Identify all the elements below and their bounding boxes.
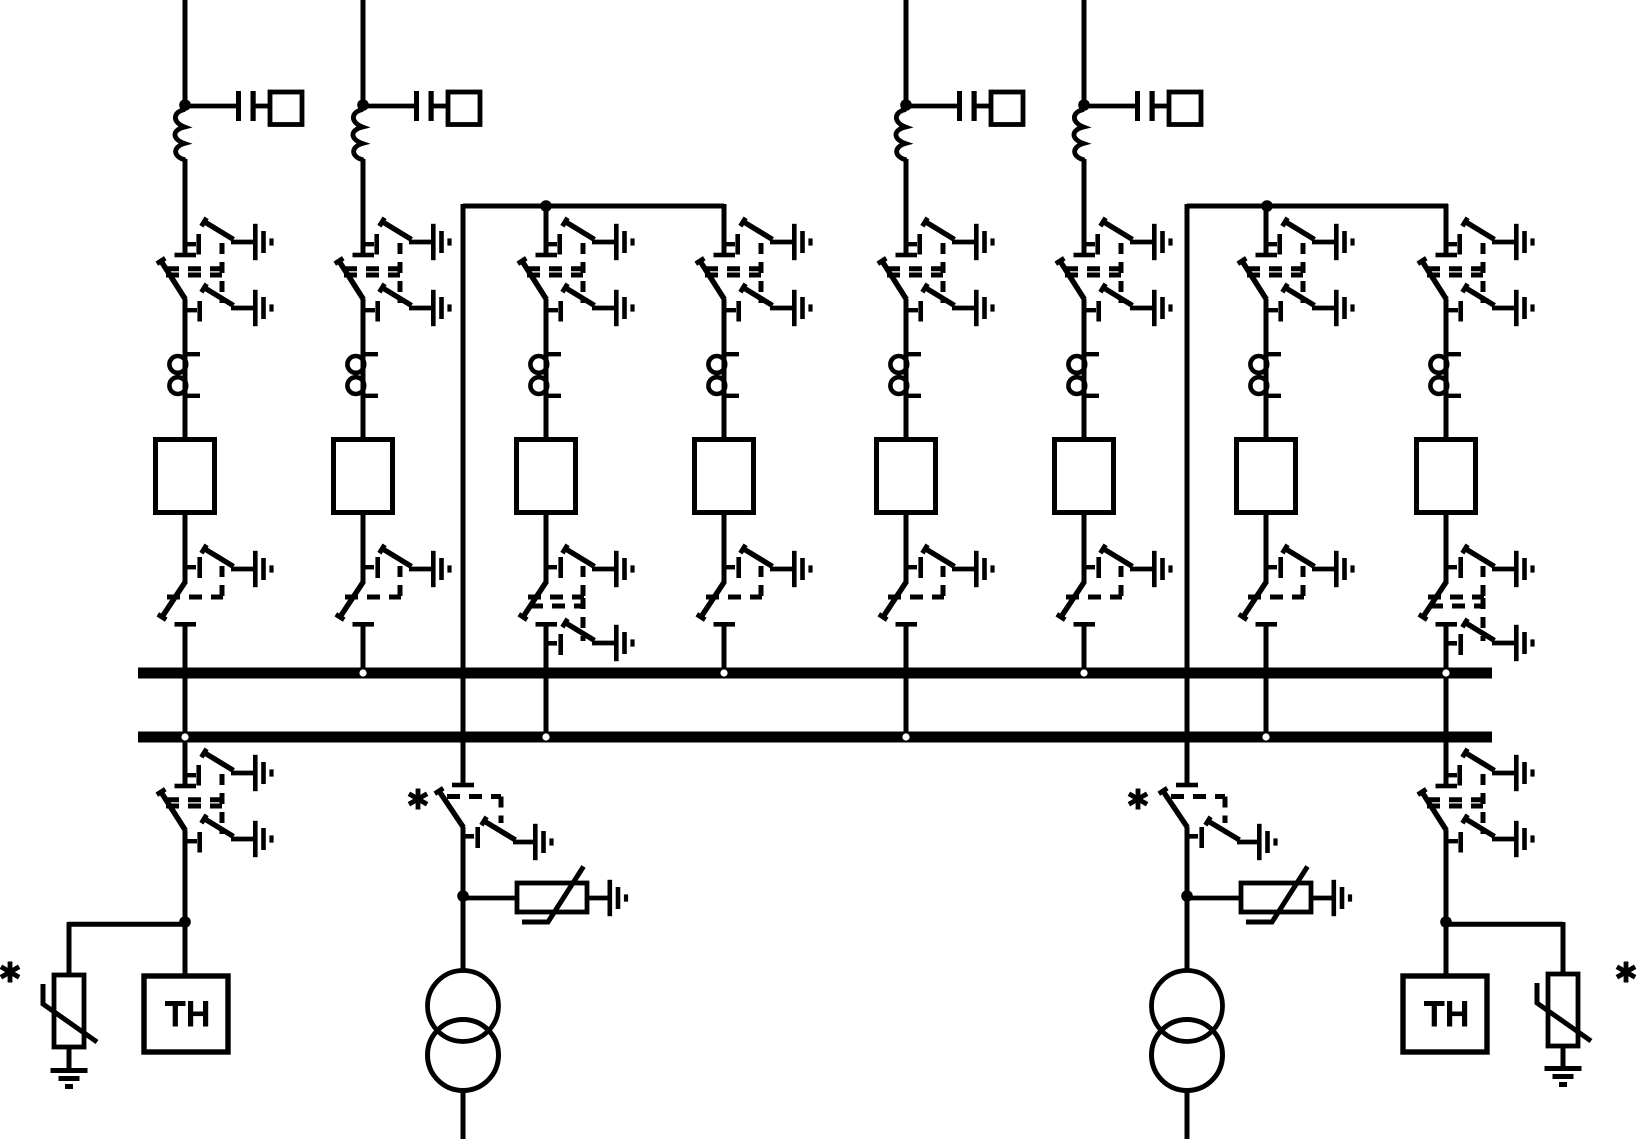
wire bay3 disconnector to breaker [544, 299, 549, 442]
disconnector QS2 with two earthing switches, bay2 [335, 218, 452, 326]
node right VT bay junction [1440, 916, 1452, 928]
asterisk footnote mark, left arrester [1, 962, 19, 983]
wire left feeder drop [461, 204, 466, 784]
node right feeder junction [1181, 890, 1193, 902]
line trap / wave trap with coupling capacitor and PLC box, bay2 [353, 91, 480, 160]
wire right feeder disconnector to transformer [1185, 827, 1190, 972]
wire bay5 disconnector to breaker [904, 299, 909, 442]
node bay1 busbar connection [181, 733, 188, 740]
line trap / wave trap with coupling capacitor and PLC box, bay5 [896, 91, 1023, 160]
wire bay8 disconnector to breaker [1444, 299, 1449, 442]
node bay5 busbar connection [902, 733, 909, 740]
line trap / wave trap with coupling capacitor and PLC box, bay6 [1074, 91, 1201, 160]
disconnector QS6 with two earthing switches, bay6 [1056, 218, 1173, 326]
circuit breaker Q4, bay4 [695, 440, 754, 513]
wire left VT bay from busbar II [183, 741, 188, 784]
disconnector QS4 with two earthing switches, bay4 [696, 218, 813, 326]
node right jumper junction [1261, 200, 1273, 212]
wire bay7 to busbar II [1264, 624, 1269, 741]
node bay6 busbar connection [1080, 669, 1087, 676]
wire bay3 drop from jumper [544, 206, 549, 254]
wire bay4 disconnector to breaker [722, 299, 727, 442]
power transformer T, left feeder [428, 971, 499, 1091]
wire bay1 breaker to bus disconnector [183, 511, 188, 583]
node left VT bay junction [179, 916, 191, 928]
wire bay8 breaker to bus disconnector [1444, 511, 1449, 583]
wire left transformer outgoing [461, 1089, 466, 1139]
power transformer T, right feeder [1152, 971, 1223, 1091]
wire bay8 to busbar I and down to voltage-transformer bay [1444, 624, 1449, 784]
wire bay5 incoming overhead line [904, 0, 909, 103]
line trap / wave trap with coupling capacitor and PLC box, bay1 [175, 91, 302, 160]
wire bay2 incoming overhead line [361, 0, 366, 103]
wire bay4 drop from jumper [722, 204, 727, 254]
node bay8 busbar connection [1442, 669, 1449, 676]
circuit breaker Q8, bay8 [1417, 440, 1476, 513]
bus disconnector with earthing switch, bay6 [1057, 545, 1173, 627]
surge arrester branch with ground, right feeder [1187, 867, 1352, 923]
asterisk footnote mark, right arrester [1617, 962, 1635, 983]
current transformer TA3, bay3 [530, 352, 561, 398]
bus disconnector with earthing switch, bay3 [519, 545, 635, 627]
wire right VT bay branch to surge arrester [1446, 922, 1563, 927]
wire bay5 breaker to bus disconnector [904, 511, 909, 583]
wire bay8 drop from jumper [1444, 204, 1449, 254]
wire left arrester to ground [67, 1046, 72, 1069]
ground, left VT bay arrester [51, 1068, 88, 1089]
wire left transformer jumper [463, 204, 724, 209]
wire bay1 incoming overhead line [183, 0, 188, 103]
wire left VT bay to junction and TH box [183, 830, 188, 977]
wire bay7 drop from jumper [1264, 206, 1269, 254]
bus disconnector with earthing switch, bay2 [336, 545, 452, 627]
asterisk footnote mark, right feeder disconnector [1129, 789, 1147, 810]
busbar II (lower main bus) [138, 732, 1492, 743]
bus disconnector with earthing switch, bay4 [697, 545, 813, 627]
wire bay1 trap to disconnector [183, 159, 188, 254]
disconnector QS7 with two earthing switches, bay7 [1238, 218, 1355, 326]
wire bay2 breaker to bus disconnector [361, 511, 366, 583]
wire bay5 trap to disconnector [904, 159, 909, 254]
wire bay4 to busbar I [722, 624, 727, 677]
node bay2 busbar connection [359, 669, 366, 676]
bus disconnector with earthing switch, bay7 [1239, 545, 1355, 627]
wire bay3 to busbar II [544, 624, 549, 741]
circuit breaker Q1, bay1 [156, 440, 215, 513]
current transformer TA8, bay8 [1430, 352, 1461, 398]
wire left feeder disconnector to transformer [461, 827, 466, 972]
disconnector with earthing switch, right transformer feeder [1159, 783, 1278, 861]
surge arrester branch with ground, left feeder [463, 867, 628, 923]
disconnector with earthing switch, left transformer feeder [435, 783, 554, 861]
wire bay6 trap to disconnector [1082, 159, 1087, 254]
wire bay1 disconnector to breaker [183, 299, 188, 442]
current transformer TA5, bay5 [890, 352, 921, 398]
disconnector QS8 with two earthing switches, bay8 [1418, 218, 1535, 326]
wire bay2 to busbar I [361, 624, 366, 677]
wire left VT bay branch to surge arrester [68, 922, 185, 927]
extra earthing switch on bus disconnector, bay8 [1430, 598, 1535, 661]
current transformer TA2, bay2 [347, 352, 378, 398]
current transformer TA1, bay1 [169, 352, 200, 398]
node left feeder junction [457, 890, 469, 902]
wire right arrester to ground [1561, 1045, 1566, 1067]
wire bay7 breaker to bus disconnector [1264, 511, 1269, 583]
wire bay6 to busbar I [1082, 624, 1087, 677]
node bay3 busbar connection [542, 733, 549, 740]
disconnector with two earthing switches, right VT bay [1418, 749, 1535, 857]
wire bay2 disconnector to breaker [361, 299, 366, 442]
disconnector QS5 with two earthing switches, bay5 [878, 218, 995, 326]
disconnector with two earthing switches, left VT bay [157, 749, 274, 857]
asterisk footnote mark, left feeder disconnector [409, 789, 427, 810]
ground, right VT bay arrester [1545, 1066, 1582, 1087]
voltage transformer TH box, left VT bay [144, 976, 228, 1052]
wire bay6 breaker to bus disconnector [1082, 511, 1087, 583]
bus disconnector with earthing switch, bay8 [1419, 545, 1535, 627]
wire bay7 disconnector to breaker [1264, 299, 1269, 442]
bus disconnector with earthing switch, bay5 [879, 545, 995, 627]
wire bay2 trap to disconnector [361, 159, 366, 254]
current transformer TA6, bay6 [1068, 352, 1099, 398]
node bay4 busbar connection [720, 669, 727, 676]
node bay7 busbar connection [1262, 733, 1269, 740]
surge arrester FV, right VT bay [1537, 974, 1591, 1046]
wire right transformer outgoing [1185, 1089, 1190, 1139]
wire bay5 to busbar II [904, 624, 909, 741]
current transformer TA4, bay4 [708, 352, 739, 398]
busbar I (upper main bus) [138, 668, 1492, 679]
surge arrester FV, left VT bay [43, 975, 97, 1047]
extra earthing switch on bus disconnector, bay3 [530, 598, 635, 661]
circuit breaker Q6, bay6 [1055, 440, 1114, 513]
wire right feeder drop [1185, 204, 1190, 784]
circuit breaker Q7, bay7 [1237, 440, 1296, 513]
current transformer TA7, bay7 [1250, 352, 1281, 398]
disconnector QS3 with two earthing switches, bay3 [518, 218, 635, 326]
node left jumper junction [540, 200, 552, 212]
wire bay6 incoming overhead line [1082, 0, 1087, 103]
circuit breaker Q3, bay3 [517, 440, 576, 513]
wire right transformer jumper [1187, 204, 1448, 209]
wire bay3 breaker to bus disconnector [544, 511, 549, 583]
circuit breaker Q5, bay5 [877, 440, 936, 513]
disconnector QS1 with two earthing switches, bay1 [157, 218, 274, 326]
wire right VT bay to junction and TH box [1444, 830, 1449, 977]
voltage transformer TH box, right VT bay [1403, 976, 1487, 1052]
wire bay4 breaker to bus disconnector [722, 511, 727, 583]
circuit breaker Q2, bay2 [334, 440, 393, 513]
wire bay6 disconnector to breaker [1082, 299, 1087, 442]
bus disconnector with earthing switch, bay1 [158, 545, 274, 627]
wire bay1 to busbar II [183, 624, 188, 741]
